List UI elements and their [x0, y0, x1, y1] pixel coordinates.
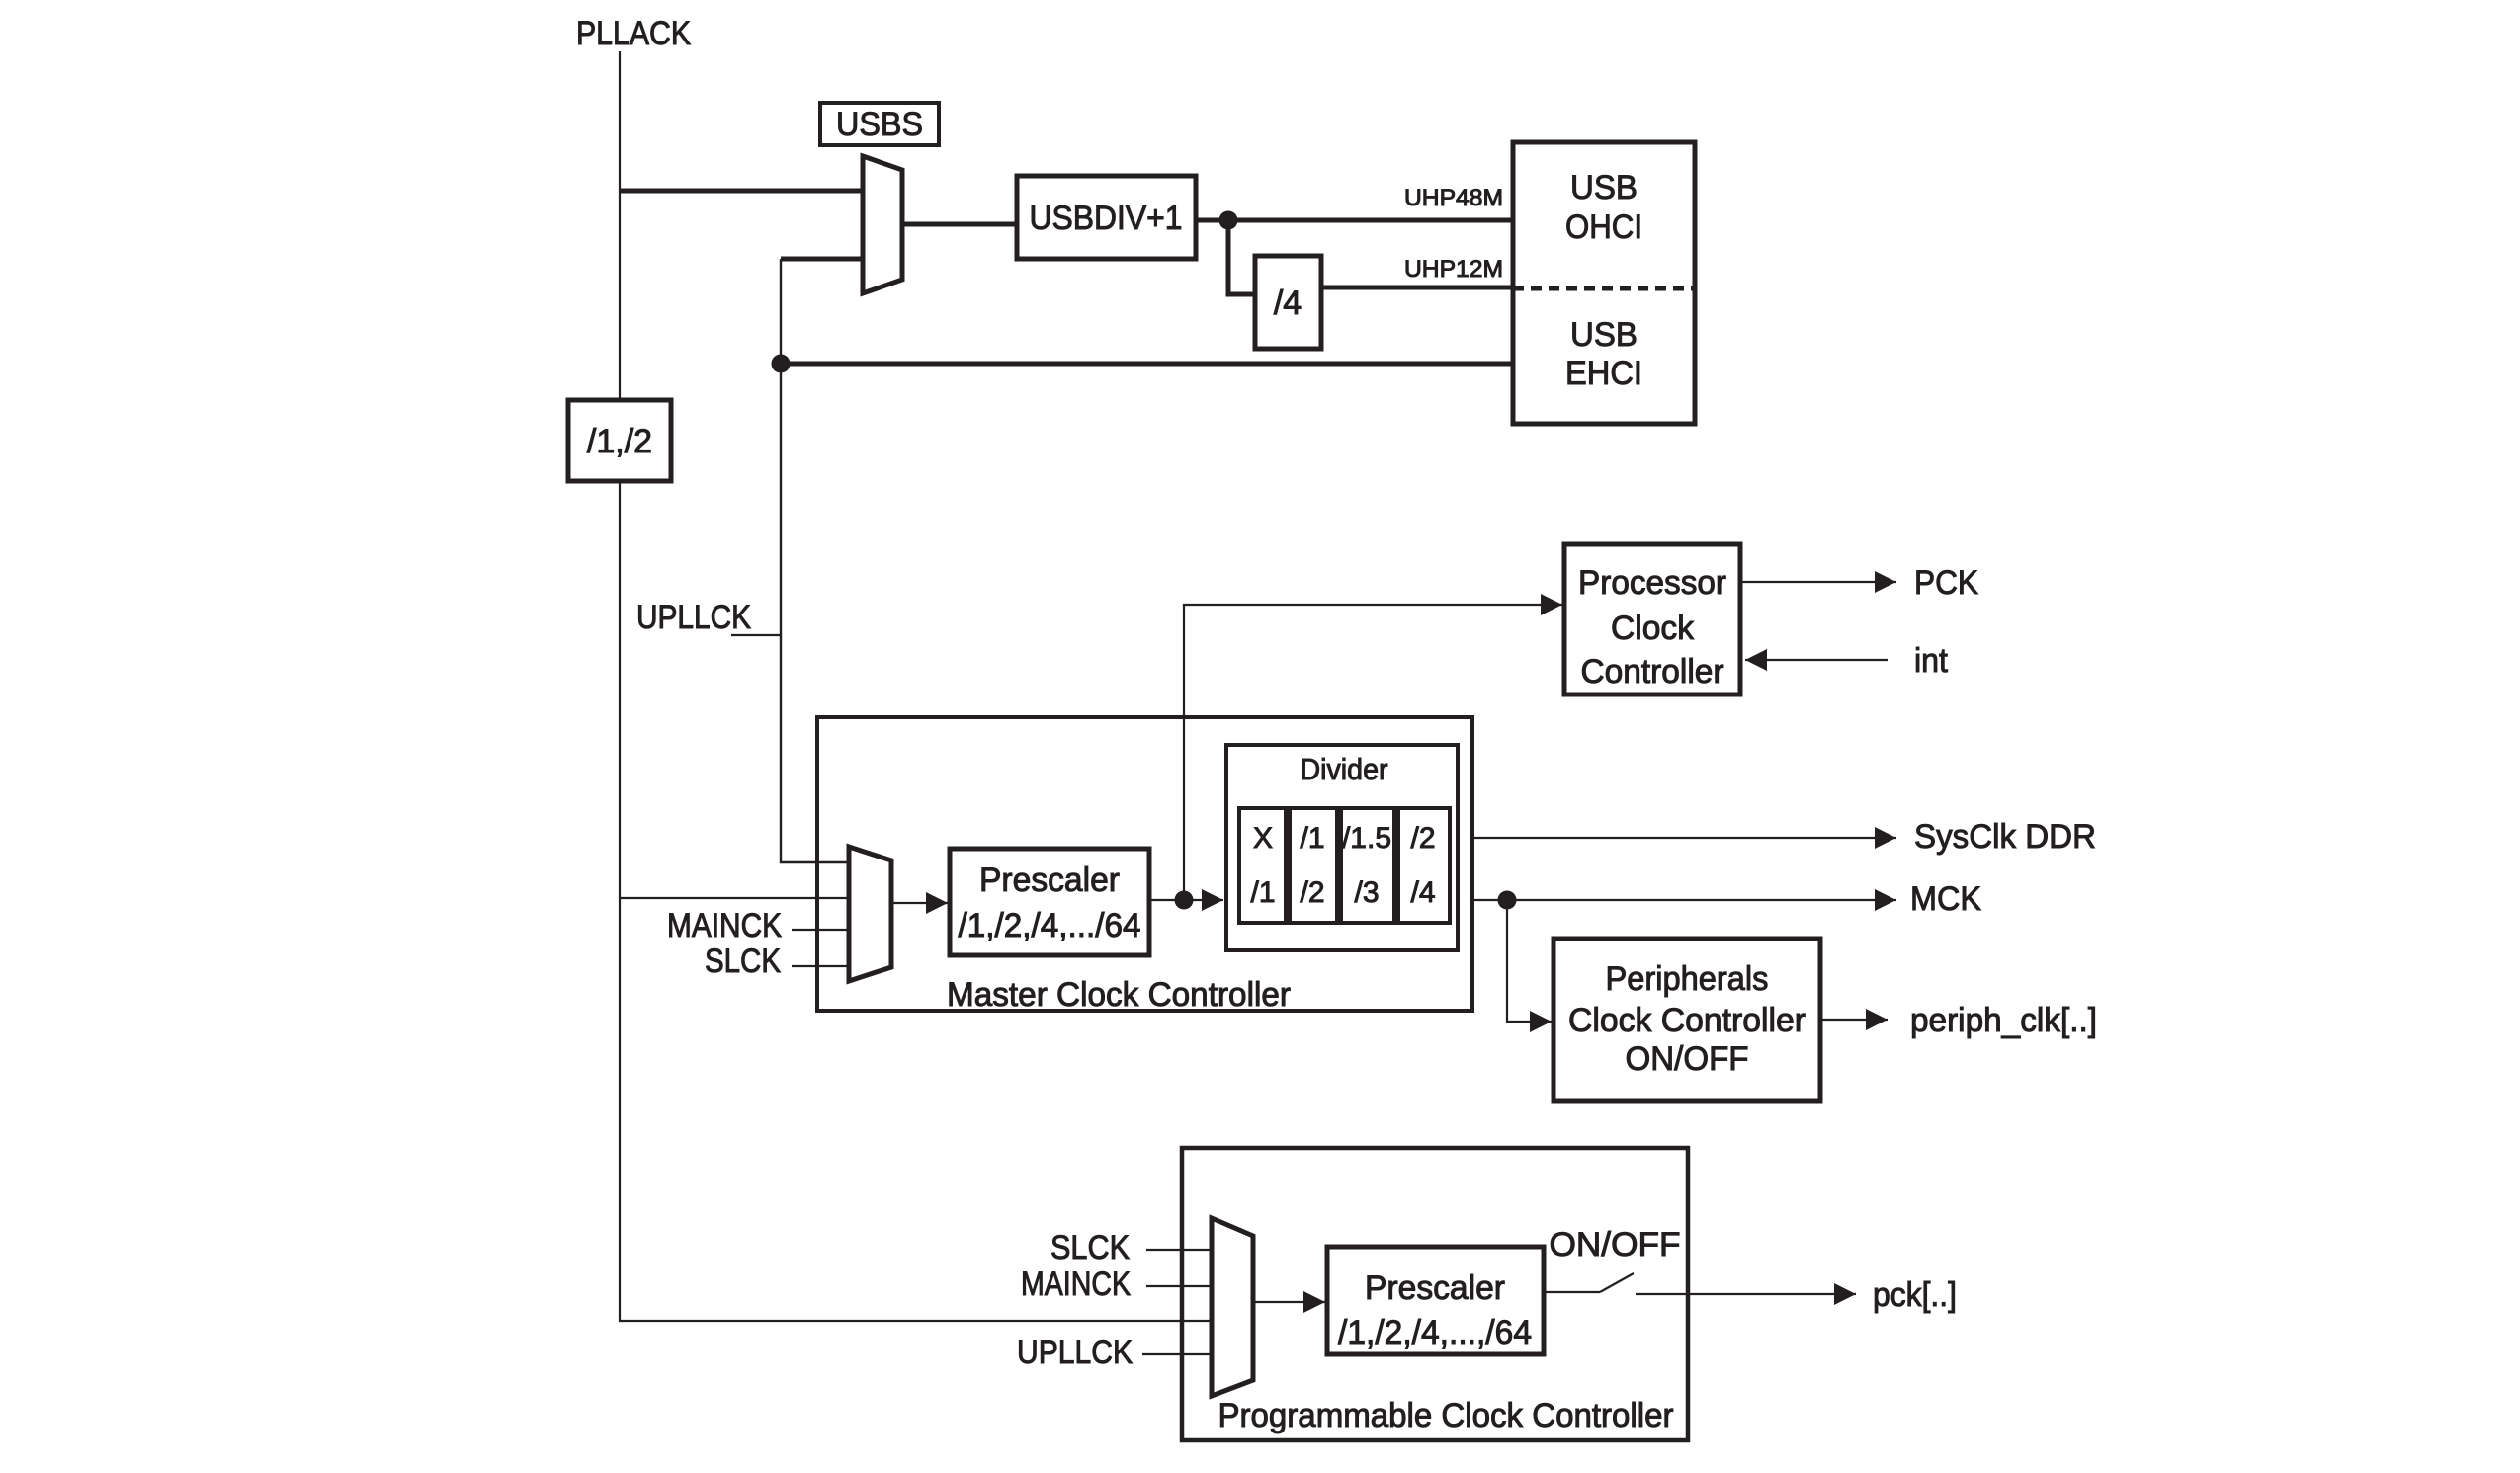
svg-text:Prescaler: Prescaler	[979, 861, 1120, 899]
wire periph_clk output	[1820, 1002, 2097, 1039]
svg-text:PLLACK: PLLACK	[576, 15, 691, 52]
node SLCK pcc	[1050, 1229, 1212, 1267]
divider cell /1.5 /3	[1341, 808, 1394, 923]
wire USBS mux to USBDIV	[902, 222, 1017, 227]
svg-text:X: X	[1253, 822, 1273, 855]
svg-text:PCK: PCK	[1914, 564, 1978, 602]
svg-text:/1,/2,/4,...,/64: /1,/2,/4,...,/64	[1338, 1314, 1532, 1351]
switch ON/OFF	[1544, 1273, 1634, 1292]
svg-text:Clock Controller: Clock Controller	[1568, 1002, 1806, 1039]
divider /1,/2	[568, 400, 671, 481]
svg-text:/4: /4	[1410, 876, 1435, 909]
wire int input	[1745, 642, 1949, 680]
svg-text:/2: /2	[1410, 822, 1435, 855]
wire UHP48M	[1196, 218, 1513, 223]
svg-text:SLCK: SLCK	[1050, 1229, 1130, 1267]
svg-text:UPLLCK: UPLLCK	[1017, 1334, 1133, 1371]
svg-text:USB: USB	[1570, 316, 1638, 354]
divider cell /2 /4	[1398, 808, 1450, 923]
wire USBDIV output to /4	[1228, 220, 1255, 294]
svg-text:/1,/2,/4,.../64: /1,/2,/4,.../64	[959, 907, 1141, 944]
svg-text:MAINCK: MAINCK	[667, 907, 782, 944]
mux master	[849, 847, 891, 981]
svg-text:Clock: Clock	[1611, 610, 1695, 647]
node MAINCK pcc	[1021, 1266, 1212, 1303]
junction dot MCK	[1498, 891, 1517, 910]
node UPLLCK pcc	[1017, 1334, 1212, 1371]
svg-text:USBS: USBS	[836, 106, 923, 143]
wire MCK	[1471, 880, 1981, 918]
block Master Clock Controller	[817, 717, 1472, 1014]
wire USBS mux lower input	[781, 257, 865, 262]
svg-text:MCK: MCK	[1910, 880, 1981, 918]
divider /4	[1255, 256, 1321, 349]
svg-text:/1: /1	[1300, 822, 1324, 855]
svg-text:Prescaler: Prescaler	[1365, 1269, 1505, 1307]
block Programmable Clock Controller	[1182, 1148, 1688, 1440]
svg-text:Divider: Divider	[1301, 752, 1388, 786]
divider USBDIV+1	[1017, 176, 1196, 259]
junction dot USBDIV output	[1219, 211, 1238, 230]
wire PLLACK to USBS mux	[620, 189, 865, 194]
svg-text:ON/OFF: ON/OFF	[1626, 1040, 1749, 1078]
junction dot UPLLCK / EHCI	[772, 355, 791, 373]
wire PCK output	[1740, 564, 1978, 602]
svg-text:int: int	[1914, 642, 1949, 680]
mux programmable	[1212, 1218, 1253, 1396]
svg-text:/4: /4	[1274, 285, 1302, 322]
wire to processor clock controller	[1184, 605, 1562, 900]
block Prescaler programmable	[1327, 1247, 1544, 1354]
node PLLACK	[576, 15, 691, 52]
block Peripherals Clock Controller	[1554, 939, 1820, 1101]
wire programmable mux to prescaler	[1253, 1301, 1325, 1303]
svg-text:MAINCK: MAINCK	[1021, 1266, 1131, 1303]
mux USBS label	[820, 103, 939, 145]
svg-text:Programmable Clock Controller: Programmable Clock Controller	[1218, 1397, 1674, 1434]
wire prescaler output	[1149, 899, 1223, 901]
svg-text:Processor: Processor	[1578, 564, 1726, 602]
svg-text:OHCI: OHCI	[1565, 208, 1642, 246]
svg-text:UHP12M: UHP12M	[1404, 256, 1503, 283]
svg-text:/1.5: /1.5	[1342, 822, 1391, 855]
svg-text:EHCI: EHCI	[1565, 355, 1642, 392]
node ON/OFF	[1550, 1226, 1681, 1264]
svg-text:SLCK: SLCK	[705, 942, 781, 980]
wire MCK to peripherals clock controller	[1507, 900, 1552, 1022]
block USB OHCI / USB EHCI	[1513, 142, 1695, 424]
svg-text:/1: /1	[1250, 876, 1275, 909]
block Divider	[1226, 745, 1458, 950]
divider cell X /1	[1239, 808, 1286, 923]
svg-text:periph_clk[..]: periph_clk[..]	[1910, 1002, 2097, 1039]
wire pck output	[1636, 1276, 1957, 1314]
svg-text:/1,/2: /1,/2	[587, 423, 652, 460]
svg-text:SysClk DDR: SysClk DDR	[1914, 818, 2096, 856]
mux USBS	[863, 156, 902, 293]
block Processor Clock Controller	[1564, 544, 1740, 695]
svg-text:pck[..]: pck[..]	[1873, 1276, 1957, 1314]
node UHP48M label	[1404, 185, 1503, 211]
svg-text:USB: USB	[1570, 169, 1638, 206]
svg-text:Controller: Controller	[1581, 653, 1724, 691]
wire PLLACK vertical	[620, 51, 1212, 1321]
wire UPLLCK vertical	[781, 259, 849, 862]
node UPLLCK	[636, 599, 780, 636]
wire EHCI clock	[781, 362, 1513, 367]
junction dot prescaler output	[1175, 891, 1194, 910]
wire master mux to prescaler	[891, 902, 948, 904]
wire UHP12M	[1321, 286, 1513, 290]
wire SysClk DDR	[1471, 818, 2096, 856]
svg-text:UPLLCK: UPLLCK	[636, 599, 751, 636]
svg-text:/2: /2	[1300, 876, 1324, 909]
svg-text:USBDIV+1: USBDIV+1	[1030, 200, 1183, 237]
divider cell /1 /2	[1290, 808, 1337, 923]
node SLCK	[705, 942, 849, 980]
svg-text:Peripherals: Peripherals	[1606, 960, 1769, 998]
svg-text:ON/OFF: ON/OFF	[1550, 1226, 1681, 1264]
node UHP12M label	[1404, 256, 1503, 283]
svg-text:/3: /3	[1354, 876, 1379, 909]
block Prescaler	[950, 849, 1149, 955]
node MAINCK	[667, 907, 849, 944]
wire PLLACK branch to master mux	[620, 897, 849, 899]
svg-text:Master Clock Controller: Master Clock Controller	[947, 976, 1291, 1014]
svg-text:UHP48M: UHP48M	[1404, 185, 1503, 211]
